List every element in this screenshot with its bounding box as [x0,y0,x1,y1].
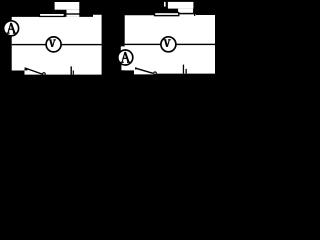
switch lever open (right circuit) [136,68,154,73]
voltmeter branch wire (left circuit) [12,44,102,45]
ammeter A (left circuit, top of left wire) [4,21,19,36]
wire bend stub (left circuit) [79,13,80,15]
switch hinge (left circuit) [25,69,28,71]
right circuit panel (white figure cutout) [125,14,215,74]
switch hinge (right circuit) [135,67,137,69]
wire from rheostat body to top-right (left circuit) [65,13,80,14]
switch contact ring (right circuit) [154,72,157,75]
wire from rheostat body to top-right (right circuit) [179,13,194,15]
white cutout margin below right ammeter [121,64,134,71]
switch contact ring (left circuit) [43,73,46,76]
rheostat slider stem margin (right circuit) [164,2,166,7]
left circuit panel (white figure cutout) [12,15,102,75]
voltmeter V (right circuit) [161,37,176,52]
voltmeter V (left circuit) [46,37,61,52]
rheostat slider white patch lower (right circuit) [178,9,193,15]
battery long plate (left circuit) [71,66,72,74]
voltmeter branch wire (right circuit) [125,44,215,45]
wire bend tick (right circuit) [194,13,195,16]
white cutout margin left of right ammeter [121,46,125,64]
switch lever open (left circuit) [25,68,43,74]
rheostat body R (left circuit, on top wire) [39,13,64,16]
ammeter A (right circuit, left wire below branch) [118,50,133,65]
rheostat slider white patch upper (left circuit) [55,2,80,10]
battery short plate (left circuit) [73,70,74,74]
rheostat slider white patch lower (left circuit) [67,10,80,17]
battery long plate (right circuit) [183,65,184,74]
rheostat body R (right circuit, on top wire) [155,13,179,16]
rheostat slider white patch upper (right circuit) [168,2,194,9]
battery short plate (right circuit) [186,69,187,74]
